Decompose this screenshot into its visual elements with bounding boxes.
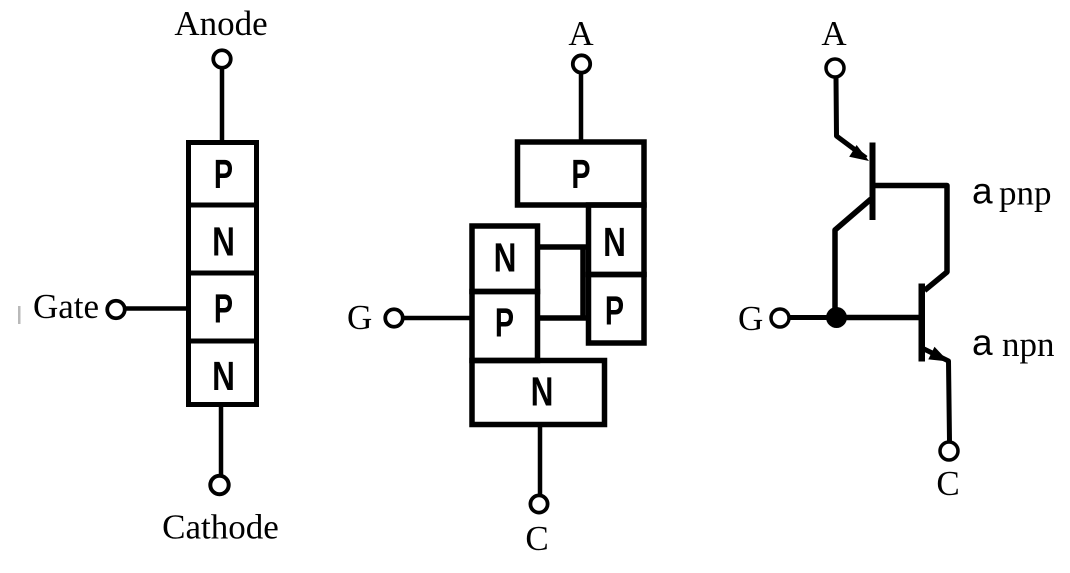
wire G to junction [789, 315, 836, 320]
svg-text:A: A [568, 14, 594, 53]
region P anode (wide top box) [518, 142, 645, 205]
junction node dot [826, 307, 847, 328]
layer P1 [214, 152, 233, 197]
svg-text:N: N [494, 235, 517, 281]
terminal G (middle) [385, 309, 403, 327]
wire junction to Q2 base [836, 315, 919, 321]
svg-text:P: P [214, 287, 233, 332]
label N right [603, 219, 626, 265]
layer P2 [214, 287, 233, 332]
label a npn [972, 322, 1055, 364]
wire N-N connector [535, 244, 586, 250]
svg-text:G: G [738, 299, 763, 338]
terminal C (right) [940, 442, 958, 460]
region P right [589, 275, 645, 344]
svg-text:N: N [603, 219, 626, 265]
label C (middle) [525, 519, 548, 558]
label A (middle) [568, 14, 594, 53]
svg-text:a: a [972, 171, 993, 212]
transistor Q2 npn base bar [919, 284, 926, 362]
label Cathode [162, 508, 279, 547]
wire vertical connector [580, 245, 586, 321]
svg-text:P: P [214, 152, 233, 197]
svg-text:Cathode: Cathode [162, 508, 279, 547]
transistor Q1 pnp emitter arrow [849, 145, 869, 161]
label G (right) [738, 299, 763, 338]
svg-text:P: P [571, 152, 590, 197]
label A (right) [821, 14, 847, 53]
terminal A (middle) [573, 55, 590, 72]
wire P-P connector [535, 315, 586, 321]
transistor Q1 pnp collector wire [835, 199, 871, 312]
label N left [494, 235, 517, 281]
wire [403, 316, 473, 321]
transistor Q1 pnp emitter wire [836, 77, 866, 158]
junction divider 2 [186, 271, 259, 276]
label P in wide box [571, 152, 590, 197]
svg-text:C: C [936, 464, 959, 503]
label Gate [33, 287, 99, 326]
wire [579, 72, 584, 142]
svg-text:Gate: Gate [33, 287, 99, 326]
terminal Anode [213, 50, 231, 68]
svg-text:a: a [972, 322, 993, 363]
svg-text:N: N [212, 219, 235, 265]
svg-text:Anode: Anode [174, 4, 267, 43]
wire [220, 68, 225, 140]
svg-text:N: N [212, 353, 235, 399]
junction divider 1 [186, 203, 259, 208]
terminal Cathode [210, 476, 228, 494]
svg-text:P: P [495, 301, 514, 346]
svg-text:G: G [347, 298, 372, 337]
transistor Q2 npn emitter arrow [928, 347, 948, 362]
terminal C (middle) [530, 495, 547, 512]
svg-text:npn: npn [1002, 325, 1055, 364]
junction divider 3 [186, 339, 259, 344]
layer N1 [212, 219, 235, 265]
wire Q1 base to Q2 collector [875, 186, 947, 291]
wire [219, 404, 224, 476]
transistor Q2 npn emitter wire [924, 349, 950, 441]
label P right [605, 289, 624, 334]
svg-text:A: A [821, 14, 847, 53]
terminal A (right) [826, 59, 844, 77]
label G (middle) [347, 298, 372, 337]
terminal G (right) [771, 309, 789, 327]
label Anode [174, 4, 267, 43]
layer N2 [212, 353, 235, 399]
label a pnp [972, 171, 1052, 213]
label C (right) [936, 464, 959, 503]
svg-text:C: C [525, 519, 548, 558]
region P left [472, 292, 538, 361]
label P left [495, 301, 514, 346]
svg-text:pnp: pnp [999, 174, 1052, 213]
svg-text:P: P [605, 289, 624, 334]
region N cathode (wide bottom box) [472, 361, 605, 425]
region N left [472, 226, 538, 292]
thyristor PNPN stack outline [189, 143, 257, 405]
transistor Q1 pnp base bar [870, 143, 876, 221]
svg-text:N: N [531, 368, 554, 414]
wire [125, 306, 188, 311]
label N in wide box [531, 368, 554, 414]
small gray mark [18, 306, 21, 324]
wire [538, 424, 543, 496]
terminal Gate [107, 301, 125, 319]
region N right [589, 205, 645, 275]
